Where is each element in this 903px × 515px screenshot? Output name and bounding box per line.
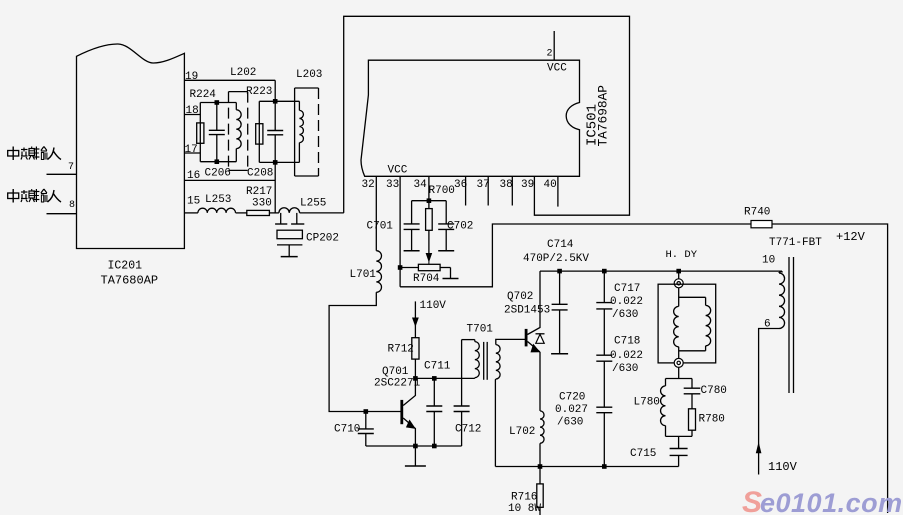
- svg-text:2: 2: [547, 49, 553, 60]
- svg-text:L202: L202: [230, 67, 256, 79]
- svg-text:15: 15: [187, 196, 200, 208]
- svg-text:Q701: Q701: [382, 366, 409, 378]
- svg-text:40: 40: [544, 179, 557, 191]
- svg-text:Q702: Q702: [507, 291, 533, 303]
- svg-text:L253: L253: [205, 194, 231, 206]
- svg-text:33: 33: [386, 179, 399, 191]
- svg-text:470P/2.5KV: 470P/2.5KV: [523, 253, 589, 265]
- svg-text:T701: T701: [467, 324, 494, 336]
- svg-text:330: 330: [252, 198, 272, 210]
- svg-text:2SC2271: 2SC2271: [374, 378, 421, 390]
- svg-text:C720: C720: [559, 392, 585, 404]
- svg-text:/630: /630: [612, 363, 638, 375]
- svg-text:TA7698AP: TA7698AP: [596, 85, 611, 146]
- svg-text:7: 7: [68, 162, 74, 173]
- svg-text:e0101.com: e0101.com: [760, 488, 903, 515]
- svg-text:C714: C714: [547, 239, 574, 251]
- svg-text:R712: R712: [388, 344, 414, 356]
- svg-text:/630: /630: [612, 309, 638, 321]
- svg-text:C710: C710: [334, 424, 360, 436]
- svg-text:2SD1453: 2SD1453: [504, 305, 550, 317]
- svg-text:/630: /630: [557, 417, 583, 429]
- svg-text:C208: C208: [247, 168, 273, 180]
- svg-text:10: 10: [762, 255, 775, 267]
- svg-text:C717: C717: [614, 283, 640, 295]
- svg-text:R217: R217: [246, 186, 272, 198]
- svg-text:L203: L203: [296, 69, 322, 81]
- svg-text:H. DY: H. DY: [666, 249, 698, 261]
- svg-text:32: 32: [362, 179, 375, 191]
- svg-text:VCC: VCC: [547, 63, 567, 75]
- svg-text:110V: 110V: [768, 460, 798, 474]
- svg-text:C780: C780: [701, 385, 727, 397]
- svg-text:+12V: +12V: [836, 230, 866, 244]
- svg-text:T771-FBT: T771-FBT: [769, 237, 822, 249]
- svg-text:R780: R780: [699, 414, 725, 426]
- svg-text:VCC: VCC: [388, 165, 408, 177]
- svg-text:R223: R223: [246, 86, 272, 98]
- svg-text:C718: C718: [614, 336, 640, 348]
- svg-text:TA7680AP: TA7680AP: [101, 274, 159, 288]
- svg-text:18: 18: [186, 105, 199, 117]
- svg-text:C701: C701: [367, 221, 394, 233]
- svg-text:L780: L780: [634, 397, 660, 409]
- svg-text:10 8W: 10 8W: [508, 503, 541, 515]
- svg-text:L701: L701: [350, 269, 377, 281]
- svg-text:R716: R716: [511, 492, 537, 504]
- svg-text:C715: C715: [630, 448, 656, 460]
- svg-text:C712: C712: [455, 424, 481, 436]
- svg-text:R224: R224: [190, 89, 217, 101]
- svg-text:0.027: 0.027: [555, 404, 588, 416]
- svg-text:C711: C711: [424, 361, 451, 373]
- svg-text:0.022: 0.022: [610, 350, 643, 362]
- svg-text:17: 17: [185, 144, 198, 156]
- svg-text:S: S: [742, 486, 762, 515]
- svg-text:R700: R700: [429, 185, 455, 197]
- svg-text:8: 8: [69, 200, 75, 211]
- svg-text:R740: R740: [744, 207, 770, 219]
- svg-text:19: 19: [185, 71, 198, 83]
- svg-text:34: 34: [414, 179, 428, 191]
- svg-text:6: 6: [764, 319, 771, 331]
- svg-text:L702: L702: [509, 426, 535, 438]
- svg-text:C702: C702: [447, 221, 473, 233]
- svg-text:L255: L255: [300, 198, 326, 210]
- svg-text:38: 38: [500, 179, 513, 191]
- svg-text:IC201: IC201: [108, 260, 143, 273]
- svg-text:0.022: 0.022: [610, 296, 643, 308]
- svg-text:C206: C206: [205, 168, 231, 180]
- svg-text:110V: 110V: [420, 300, 447, 312]
- svg-text:CP202: CP202: [306, 233, 339, 245]
- svg-text:R704: R704: [413, 273, 440, 285]
- svg-text:39: 39: [521, 179, 534, 191]
